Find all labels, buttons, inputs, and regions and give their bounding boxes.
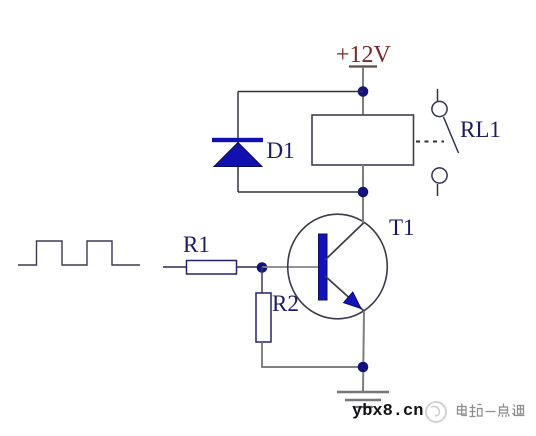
square wave input signal [18,241,140,265]
switch top terminal stub [437,89,439,101]
wire top node to diode top [238,91,363,93]
wire base node to transistor base [262,266,319,268]
switch bottom terminal stub [437,184,439,196]
svg-text:ybx8.cn: ybx8.cn [352,402,423,421]
svg-text:RL1: RL1 [460,117,501,142]
wire relay bottom to collector [362,165,364,223]
wire input to R1 [163,266,188,268]
resistor R1 [187,261,237,275]
transistor T1 [288,214,388,319]
node top junction [358,86,369,97]
relay coil RL1 [312,115,414,165]
svg-text:D1: D1 [267,138,295,163]
node base junction [257,262,268,273]
transistor T1 collector line [325,223,364,261]
wire diode bottom to lower node [238,191,363,193]
wire diode vertical [237,92,239,193]
wire R2 bottom to emitter node [262,342,363,367]
transistor T1 base bar [319,234,328,300]
wire +12V down to top node [362,67,364,115]
svg-text:R1: R1 [183,232,210,257]
watermark logo circle [426,402,446,422]
diode D1 cathode bar [212,138,263,142]
switch bottom contact circle [432,168,447,183]
transistor T1 emitter arrow [344,292,361,309]
svg-text:T1: T1 [389,215,415,240]
node collector junction [358,187,369,198]
watermark chinese text 电路一点通 (stroke approximation) [458,404,525,418]
switch top contact circle [432,101,447,116]
+12V rail bar [349,65,377,67]
resistor R2 [256,293,271,342]
relay switch dashed link [416,141,444,143]
wire emitter down to ground node [363,311,364,391]
node emitter junction [358,362,369,373]
wire base node down to R2 [261,267,263,293]
svg-text:+12V: +12V [336,42,392,68]
transistor T1 emitter line [325,276,364,311]
wire R1 to base node [236,266,262,268]
diode D1 triangle [214,143,262,167]
switch blade [444,117,459,153]
ground [337,391,389,394]
